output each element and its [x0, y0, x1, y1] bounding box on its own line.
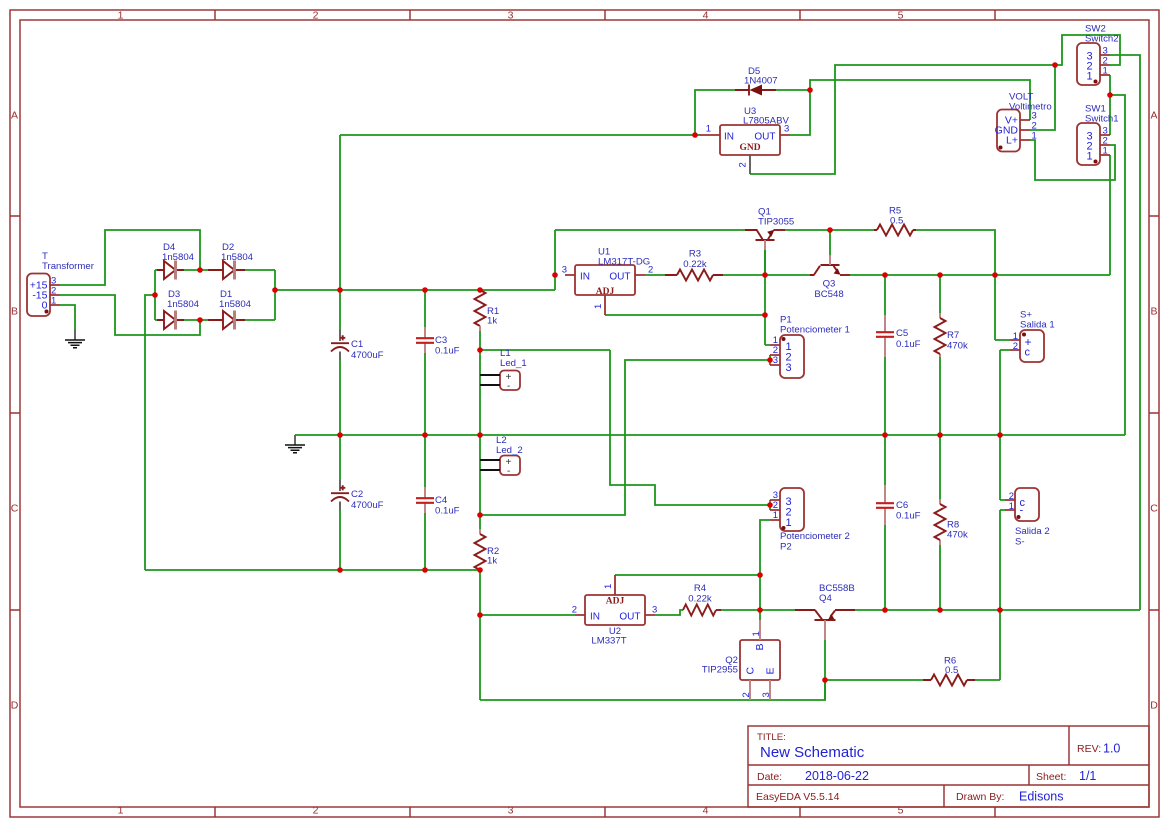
wire bridge bottom row segments — [155, 319, 275, 321]
svg-text:3: 3 — [786, 362, 792, 374]
wire bridge left column — [154, 270, 156, 320]
regulator U2 LM337T — [572, 575, 658, 647]
wire S+ line up to SW1 pin1 — [1109, 155, 1111, 275]
node SW link — [1107, 92, 1113, 98]
wire U1 OUT to R3 — [645, 274, 665, 276]
svg-text:Transformer: Transformer — [42, 261, 95, 272]
resistor R6 — [923, 656, 975, 686]
svg-text:TITLE:: TITLE: — [757, 732, 786, 743]
node C2 bottom — [337, 567, 343, 573]
wire C6 column — [884, 435, 886, 610]
wire bridge top row segments — [155, 269, 275, 271]
svg-text:OUT: OUT — [609, 272, 630, 283]
capacitor C6 — [876, 485, 921, 525]
svg-text:L+: L+ — [1006, 135, 1018, 147]
svg-text:0.1uF: 0.1uF — [896, 339, 921, 350]
svg-text:5: 5 — [898, 10, 904, 22]
ground near transformer — [65, 329, 85, 348]
svg-text:-: - — [507, 381, 510, 392]
svg-text:LM337T: LM337T — [591, 636, 626, 647]
node C1 top — [337, 287, 343, 293]
svg-text:0.5: 0.5 — [945, 665, 958, 676]
svg-text:1: 1 — [1087, 151, 1093, 163]
svg-text:R3: R3 — [689, 249, 701, 260]
wire U3 IN horizontal — [340, 134, 699, 136]
resistor R5 — [874, 206, 916, 236]
potentiometer P1 — [770, 315, 850, 379]
wire x610 down jog to P2 wiper — [610, 350, 770, 505]
svg-text:3: 3 — [652, 605, 657, 616]
wire R7 column — [939, 275, 941, 435]
wire -15 from transformer pin2 to bridge bottom center — [60, 295, 200, 335]
svg-text:3: 3 — [773, 355, 778, 366]
diode D4 — [157, 242, 195, 280]
node C1 bottom rail — [337, 432, 343, 438]
node C4 bottom — [422, 567, 428, 573]
border column labels bottom — [118, 805, 904, 817]
svg-text:Switch1: Switch1 — [1085, 114, 1119, 125]
svg-text:BC548: BC548 — [814, 289, 843, 300]
node U2 IN tap — [477, 612, 483, 618]
border column labels top — [118, 10, 904, 22]
svg-text:R4: R4 — [694, 583, 707, 594]
svg-text:1: 1 — [773, 510, 778, 521]
wire L1 feed to x610 — [480, 349, 610, 351]
wire Q3 emitter to S+ line — [850, 274, 1110, 276]
wire negative out line up to SW2 pin3 — [1110, 55, 1140, 610]
node R1 top — [477, 287, 483, 293]
diode D2 — [208, 242, 254, 280]
wire LED column x480 lower — [479, 435, 481, 529]
node U3 IN — [692, 132, 698, 138]
svg-text:C1: C1 — [351, 339, 363, 350]
svg-text:1: 1 — [751, 631, 762, 636]
svg-text:Voltimetro: Voltimetro — [1009, 102, 1052, 113]
svg-text:4: 4 — [703, 805, 709, 817]
svg-text:1: 1 — [603, 584, 614, 589]
wire bottom rail to Q2 and R6 corner — [480, 680, 825, 700]
svg-text:1: 1 — [706, 124, 711, 135]
svg-text:1: 1 — [1103, 146, 1108, 157]
svg-text:1: 1 — [593, 304, 604, 309]
svg-text:ADJ: ADJ — [596, 287, 615, 297]
svg-text:1n5804: 1n5804 — [219, 299, 252, 310]
capacitor C2 — [331, 480, 384, 511]
svg-text:C4: C4 — [435, 495, 448, 506]
title block — [748, 726, 1149, 807]
wire U3 OUT to VOLT V+ — [810, 80, 1030, 120]
svg-text:P2: P2 — [780, 542, 792, 553]
svg-text:0.1uF: 0.1uF — [896, 511, 921, 522]
border row ticks left — [10, 216, 20, 610]
border row ticks right — [1149, 216, 1159, 610]
node bridge bottom center — [197, 317, 203, 323]
svg-text:2: 2 — [738, 162, 749, 167]
svg-text:0.5: 0.5 — [890, 216, 903, 227]
svg-text:Sheet:: Sheet: — [1036, 771, 1066, 783]
transistor Q4 BC558B — [795, 583, 855, 640]
svg-text:TIP3055: TIP3055 — [758, 217, 794, 228]
svg-text:4700uF: 4700uF — [351, 500, 384, 511]
connector Salida 2 S- — [1005, 488, 1050, 548]
wire GND net to SW2 pin2 — [1055, 35, 1120, 65]
node P1 wiper — [767, 357, 773, 363]
svg-text:2: 2 — [1013, 341, 1018, 352]
ground at mid rail — [285, 435, 305, 453]
wire U3 IN feed vertical at x340 — [339, 135, 341, 290]
wire R6 left to Q4 base junction — [825, 679, 923, 681]
node bridge output — [272, 287, 278, 293]
node R8 neg out — [937, 607, 943, 613]
node Salida column rail — [997, 432, 1003, 438]
wire R2 bottom to negative rail junction — [479, 570, 481, 615]
transistor Q3 BC548 — [810, 255, 850, 300]
svg-text:1: 1 — [118, 10, 124, 22]
resistor R3 — [665, 249, 723, 281]
capacitor C4 — [416, 487, 460, 517]
svg-text:LM317T-DG: LM317T-DG — [598, 257, 650, 268]
svg-text:2018-06-22: 2018-06-22 — [805, 769, 869, 783]
svg-text:Salida 2: Salida 2 — [1015, 526, 1050, 537]
led L2 — [480, 435, 523, 477]
resistor R2 — [475, 529, 500, 570]
svg-text:GND: GND — [739, 143, 760, 153]
svg-text:D: D — [1150, 700, 1158, 712]
svg-text:1n5804: 1n5804 — [162, 252, 195, 263]
wire x480 down to bottom rail — [479, 615, 481, 700]
wire R1 bottom to LED column — [479, 331, 481, 350]
node R6 neg out — [997, 607, 1003, 613]
svg-text:1k: 1k — [487, 316, 497, 327]
svg-text:Drawn By:: Drawn By: — [956, 791, 1004, 803]
node C5 top — [882, 272, 888, 278]
svg-text:1.0: 1.0 — [1103, 742, 1120, 756]
wire Q3 junction to R5 — [830, 229, 874, 231]
wire Q3 base vertical — [829, 230, 831, 255]
svg-text:B: B — [754, 643, 766, 650]
svg-text:4: 4 — [703, 10, 709, 22]
wire R3 output junction column — [765, 250, 770, 345]
svg-text:TIP2955: TIP2955 — [702, 665, 738, 676]
wire VOLT GND link — [1030, 65, 1055, 130]
svg-text:0.1uF: 0.1uF — [435, 506, 460, 517]
node R4 out — [757, 607, 763, 613]
wire C1 column — [339, 290, 341, 435]
wire P1 wiper to L2 row — [480, 360, 770, 515]
svg-text:1n5804: 1n5804 — [167, 299, 200, 310]
node Q4 base — [822, 677, 828, 683]
led L1 — [480, 348, 527, 392]
wire Q4 base junction column — [824, 640, 826, 700]
svg-text:1/1: 1/1 — [1079, 769, 1096, 783]
node LED column rail — [477, 432, 483, 438]
resistor R8 — [935, 499, 969, 545]
wire +15 from transformer pin3 to bridge top center — [60, 230, 200, 285]
svg-text:3: 3 — [508, 805, 514, 817]
capacitor C3 — [416, 327, 460, 357]
wire Q4 emitter to negative out line — [855, 609, 1140, 611]
wire C5 column — [884, 275, 886, 435]
svg-text:OUT: OUT — [754, 132, 775, 143]
svg-text:1N4007: 1N4007 — [744, 76, 778, 87]
svg-text:470k: 470k — [947, 341, 968, 352]
wire C2 column — [339, 435, 341, 570]
resistor R7 — [935, 313, 969, 357]
svg-text:A: A — [1150, 110, 1157, 122]
diode D3 — [157, 289, 200, 330]
svg-text:-: - — [1020, 505, 1024, 517]
wire Q1 emitter to Q3 base junction — [785, 229, 830, 231]
svg-text:2: 2 — [313, 805, 319, 817]
svg-text:1: 1 — [51, 296, 56, 307]
svg-text:1: 1 — [1087, 71, 1093, 83]
node S+ column — [992, 272, 998, 278]
wire U3 GND run — [750, 65, 1055, 174]
node R1 L1 tap — [477, 347, 483, 353]
regulator U1 LM317T-DG — [562, 247, 654, 316]
svg-text:2: 2 — [648, 265, 653, 276]
capacitor C1 — [331, 330, 384, 361]
node L2 R2 tap — [477, 512, 483, 518]
svg-text:3: 3 — [562, 265, 567, 276]
wire SW2 pin1 to SW1 pin3 — [1109, 75, 1111, 135]
switch SW2 — [1077, 24, 1119, 86]
svg-text:1: 1 — [1103, 66, 1108, 77]
node R7 top — [937, 272, 943, 278]
wire R5 to x995 column — [916, 230, 1010, 340]
svg-text:-: - — [507, 466, 510, 477]
node C3 bottom rail — [422, 432, 428, 438]
svg-text:IN: IN — [580, 272, 590, 283]
svg-text:1k: 1k — [487, 556, 497, 567]
svg-text:C6: C6 — [896, 500, 908, 511]
node U2 ADJ P2 — [757, 572, 763, 578]
svg-text:1: 1 — [118, 805, 124, 817]
svg-text:c: c — [1025, 347, 1031, 359]
svg-text:E: E — [765, 667, 777, 674]
regulator U3 L7805ABV — [699, 106, 790, 174]
wire top line U1-IN column to Q1 collector — [555, 229, 745, 231]
svg-text:C: C — [11, 503, 19, 515]
svg-text:1n5804: 1n5804 — [221, 252, 254, 263]
svg-text:0.1uF: 0.1uF — [435, 346, 460, 357]
wire P2 pin1 column — [760, 520, 770, 620]
wire P2 pins 3-2 bracket — [769, 500, 771, 510]
svg-text:C: C — [745, 667, 757, 675]
node U1 ADJ P1 — [762, 312, 768, 318]
wire bridge right column — [274, 270, 276, 320]
svg-text:EasyEDA V5.5.14: EasyEDA V5.5.14 — [756, 791, 840, 803]
wire bridge left column tap to negative vertical — [145, 295, 155, 570]
wire 0V from transformer pin1 to ground — [60, 305, 75, 329]
svg-text:Q3: Q3 — [823, 279, 836, 290]
diode D5 — [735, 66, 778, 96]
resistor R1 — [475, 290, 500, 331]
svg-text:Led_2: Led_2 — [496, 445, 523, 456]
svg-text:3: 3 — [761, 692, 772, 697]
wire P1 pins 2-3 bracket — [769, 355, 771, 365]
wire negative rail — [145, 569, 480, 571]
wire positive rail to U1 IN — [275, 230, 555, 290]
svg-text:3: 3 — [508, 10, 514, 22]
wire C4 column — [424, 435, 426, 570]
svg-text:R7: R7 — [947, 330, 959, 341]
svg-text:4700uF: 4700uF — [351, 350, 384, 361]
wire C3 column — [424, 290, 426, 435]
wire ground rail — [295, 434, 1125, 436]
svg-text:B: B — [1150, 306, 1157, 318]
transformer T — [27, 251, 95, 316]
node C6 neg out — [882, 607, 888, 613]
node P2 wiper — [767, 502, 773, 508]
wire D5 branch — [695, 90, 735, 135]
node U1 IN — [552, 272, 558, 278]
svg-text:D: D — [11, 700, 19, 712]
svg-text:Led_1: Led_1 — [500, 358, 527, 369]
resistor R4 — [683, 583, 721, 616]
wire LED column x480 upper — [479, 350, 481, 435]
svg-text:A: A — [11, 110, 18, 122]
node D5 out — [807, 87, 813, 93]
node C3 top — [422, 287, 428, 293]
svg-text:C3: C3 — [435, 335, 447, 346]
transistor Q2 TIP2955 — [702, 620, 780, 700]
svg-text:470k: 470k — [947, 530, 968, 541]
svg-text:L7805ABV: L7805ABV — [743, 116, 789, 127]
wire U2 ADJ line — [615, 574, 760, 576]
svg-text:Switch2: Switch2 — [1085, 34, 1119, 45]
svg-text:1: 1 — [1009, 501, 1014, 512]
border column ticks bottom — [215, 807, 995, 817]
svg-text:Potenciometer 1: Potenciometer 1 — [780, 325, 850, 336]
transistor Q1 TIP3055 — [745, 207, 794, 251]
node C5 rail — [882, 432, 888, 438]
svg-text:IN: IN — [724, 132, 734, 143]
switch SW1 — [1077, 104, 1119, 166]
svg-text:1: 1 — [1032, 131, 1037, 142]
svg-text:C2: C2 — [351, 489, 363, 500]
svg-text:3: 3 — [784, 124, 789, 135]
wire R3 to junction x765 — [723, 274, 765, 276]
wire Salida2 pin1 down to neg out line — [1000, 510, 1005, 610]
svg-text:0.22k: 0.22k — [688, 594, 712, 605]
border column ticks top — [215, 10, 995, 20]
diode D1 — [208, 289, 252, 330]
svg-text:C5: C5 — [896, 328, 908, 339]
node Q3 base top — [827, 227, 833, 233]
wire U2 IN rail — [480, 614, 575, 616]
svg-text:Q4: Q4 — [819, 593, 832, 604]
node GND VOLT — [1052, 62, 1058, 68]
svg-text:Salida 1: Salida 1 — [1020, 320, 1055, 331]
wire R6 right column — [975, 610, 1000, 680]
node bridge left — [152, 292, 158, 298]
svg-text:2: 2 — [572, 605, 577, 616]
wire SW junction to ground rail — [1110, 95, 1125, 435]
svg-text:OUT: OUT — [619, 612, 640, 623]
svg-text:New Schematic: New Schematic — [760, 744, 865, 761]
svg-text:Edisons: Edisons — [1019, 790, 1063, 804]
capacitor C5 — [876, 315, 921, 357]
connector Salida 1 S+ — [1010, 310, 1055, 363]
wire Salida1 pin2 down x1000 — [1000, 350, 1010, 500]
wire U1 ADJ to P1 column — [605, 314, 765, 316]
wire R4 to Q4 collector — [720, 609, 795, 611]
svg-text:C: C — [1150, 503, 1158, 515]
wire R8 column — [939, 435, 941, 610]
wire Q1 base drop — [764, 250, 766, 275]
svg-text:IN: IN — [590, 612, 600, 623]
wire VOLT L+ to SW1 pin2 — [1030, 140, 1115, 180]
svg-text:S-: S- — [1015, 537, 1025, 548]
svg-text:0: 0 — [42, 300, 48, 312]
svg-text:1: 1 — [786, 517, 792, 529]
node R7 rail — [937, 432, 943, 438]
voltmeter VOLT — [995, 92, 1052, 152]
potentiometer P2 — [770, 488, 850, 553]
svg-text:Date:: Date: — [757, 771, 782, 783]
svg-text:REV:: REV: — [1077, 743, 1101, 755]
svg-text:B: B — [11, 306, 18, 318]
svg-text:2: 2 — [741, 692, 752, 697]
border row labels left — [11, 110, 19, 712]
svg-text:ADJ: ADJ — [606, 597, 625, 607]
border row labels right — [1150, 110, 1158, 712]
wire U2 OUT jog to R4 — [655, 610, 683, 615]
svg-text:0.22k: 0.22k — [683, 259, 707, 270]
svg-text:2: 2 — [313, 10, 319, 22]
node bridge top center — [197, 267, 203, 273]
wire junction x765 to Q3 collector — [765, 274, 810, 276]
node R3 out — [762, 272, 768, 278]
svg-text:Potenciometer 2: Potenciometer 2 — [780, 531, 850, 542]
wire D5 cathode to U3 OUT — [776, 90, 810, 135]
node R2 bottom — [477, 567, 483, 573]
